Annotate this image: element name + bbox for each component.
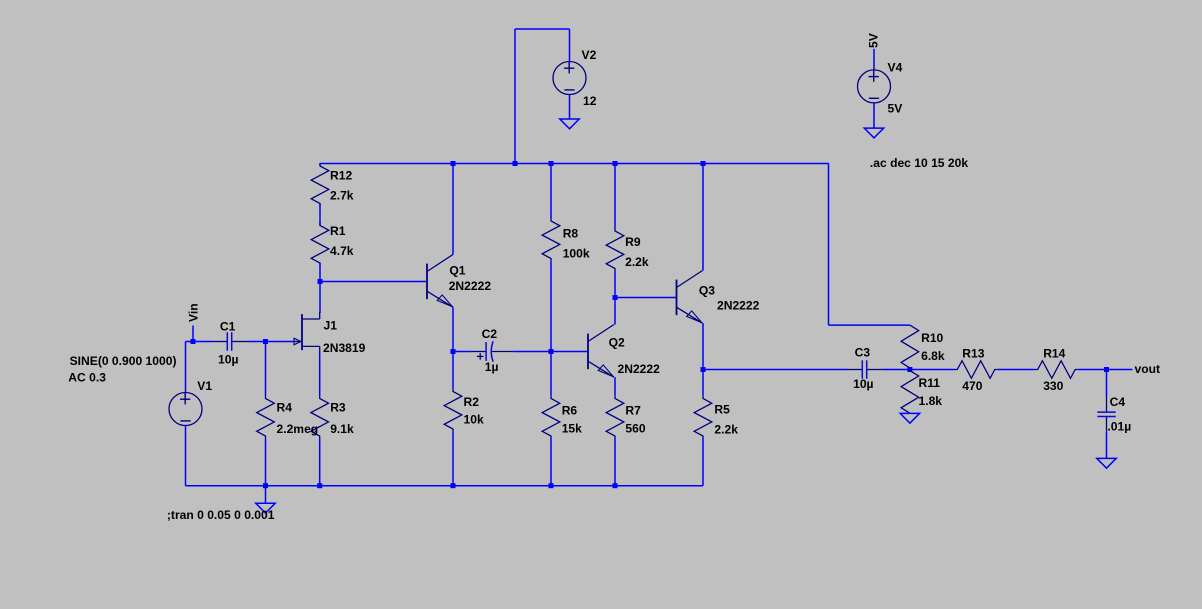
wire Q2 base [551,351,588,353]
voltage source V2 [553,62,586,95]
resistor R5 [694,396,712,440]
junction C1/R4/gate node [263,339,268,344]
junction R9/Q2/Q3 base [613,295,618,300]
wire R14 to vout [1078,369,1132,371]
svg-text:10µ: 10µ [218,353,238,367]
junction vout node [1104,367,1109,372]
svg-text:SINE(0 0.900 1000): SINE(0 0.900 1000) [70,354,177,368]
resistor R11 [901,370,919,414]
svg-text:560: 560 [625,422,645,436]
svg-text:R13: R13 [962,346,984,360]
wire C4 bottom [1106,432,1108,459]
wire J1 gate [266,341,294,343]
resistor R4 [257,396,275,440]
wire Q1 base [320,281,427,283]
wire C2 right [513,351,551,353]
wire R2 bottom [452,432,454,486]
svg-text:6.8k: 6.8k [921,349,945,363]
svg-text:vout: vout [1135,362,1161,376]
svg-text:470: 470 [962,379,982,393]
wire C3 to R10 node [882,369,910,371]
svg-text:AC 0.3: AC 0.3 [68,371,106,385]
voltage source V1 [169,393,202,426]
wire top supply bus [320,163,829,165]
wire R9 top [614,164,616,229]
svg-text:100k: 100k [563,246,590,260]
svg-text:R12: R12 [330,169,352,183]
resistor R14 [1035,361,1079,379]
svg-text:2N2222: 2N2222 [449,279,492,293]
junction top R8 [549,161,554,166]
wire Q3 emitter to C3 [703,369,847,371]
wire stub to ground flag [265,486,267,504]
svg-text:Vin: Vin [187,303,201,322]
junction top V2 [513,161,518,166]
ground below V2 [560,119,579,129]
resistor R1 [311,223,329,267]
wire V1 top [185,342,187,393]
npn transistor Q1 [426,264,428,300]
junction bottom R4 [263,483,268,488]
junction bottom R2 [451,483,456,488]
svg-text:330: 330 [1043,379,1063,393]
voltage source V2 branch wire [514,29,516,164]
wire R3 bottom [319,439,321,486]
wire R4 bottom [265,439,267,486]
n-JFET J1 [301,314,303,350]
wire Q1 emitter down [452,307,454,351]
svg-text:9.1k: 9.1k [330,422,354,436]
svg-text:Q1: Q1 [449,263,465,277]
wire Q2 collector up [614,298,616,325]
svg-text:R14: R14 [1043,346,1065,360]
svg-text:C1: C1 [220,320,236,334]
wire right bus down to R10 [828,164,830,326]
wire Q2 emitter down to R7 [614,377,616,395]
wire Vin stub [192,326,194,342]
svg-text:V2: V2 [582,48,597,62]
svg-text:12: 12 [583,94,597,108]
junction R10/R11/C3/R13 [907,367,912,372]
wire bottom ground bus [186,485,704,487]
svg-text:5V: 5V [867,33,881,48]
voltage source V4 top lead [873,49,875,70]
wire R13 to R14 [998,369,1035,371]
svg-text:1.8k: 1.8k [919,394,943,408]
svg-text:R11: R11 [919,376,941,390]
svg-text:2N2222: 2N2222 [618,362,661,376]
resistor R6 [542,396,560,440]
voltage source V4 [858,70,891,103]
ground below R11 [900,413,919,423]
npn transistor Q2 [587,334,589,370]
wire R4 top [265,342,267,396]
wire R9 bottom [614,272,616,298]
svg-text:C4: C4 [1110,395,1126,409]
wire R6 bottom [550,439,552,486]
svg-text:R6: R6 [562,404,578,418]
wire Q3 base [615,297,677,299]
resistor R9 [606,228,624,272]
wire Q3 collector up [702,164,704,271]
svg-text:10µ: 10µ [853,377,873,391]
svg-text:R2: R2 [464,395,480,409]
svg-text:15k: 15k [562,422,582,436]
junction Q1 emitter / C2 / R2 [451,349,456,354]
svg-text:R3: R3 [330,401,346,415]
junction top Q3 [701,161,706,166]
junction bottom R7 [613,483,618,488]
svg-text:R1: R1 [330,224,346,238]
svg-text:1µ: 1µ [485,360,499,374]
wire J1 source down to R3 [319,353,321,396]
svg-text:2.2k: 2.2k [714,423,738,437]
wire Q1 collector up [452,164,454,255]
capacitor C1 [212,341,227,343]
wire to R13 [910,369,955,371]
svg-text:2N2222: 2N2222 [717,299,760,313]
svg-text:2.2meg: 2.2meg [277,422,319,436]
wire R7 bottom [614,439,616,486]
svg-text:Q2: Q2 [609,336,625,350]
wire C4 top [1106,370,1108,397]
svg-text:R8: R8 [563,226,579,240]
resistor R10 [901,325,919,369]
wire R8 bottom [550,262,552,352]
wire R2 top [452,352,454,389]
svg-text:10k: 10k [464,413,484,427]
svg-text:C2: C2 [482,327,498,341]
wire Vin node to C1 [186,341,213,343]
polarized capacitor C2 [471,351,486,353]
junction top R9 [613,161,618,166]
resistor R2 [444,389,462,433]
wire V4 to ground [873,103,875,128]
svg-text:R7: R7 [625,404,641,418]
resistor R3 [311,396,329,440]
junction Q3 emitter / R5 / C3 [701,367,706,372]
svg-text:2.2k: 2.2k [625,255,649,269]
junction C2/R8/R6/Q2 [549,349,554,354]
svg-text:5V: 5V [888,102,903,116]
ground below C4 [1097,458,1116,468]
svg-text:R4: R4 [277,401,293,415]
svg-text:V4: V4 [888,61,903,75]
wire R5 top [702,370,704,396]
wire R8 top [550,164,552,219]
svg-text:2N3819: 2N3819 [323,341,366,355]
wire Q3 emitter down [702,323,704,369]
junction bottom R6 [549,483,554,488]
junction Vin node [191,339,196,344]
npn transistor Q3 [676,280,678,316]
svg-text:.ac dec 10 15 20k: .ac dec 10 15 20k [870,156,968,170]
svg-text:R9: R9 [625,235,641,249]
capacitor C4 [1106,397,1108,412]
svg-text:R10: R10 [921,331,943,345]
ground below V4 [864,128,883,138]
resistor R7 [606,396,624,440]
wire V1 bottom [185,426,187,486]
wire R6 top [550,352,552,396]
svg-text:;tran 0 0.05 0 0.001: ;tran 0 0.05 0 0.001 [167,508,275,522]
ground bottom [256,503,275,513]
junction R1/Q1 base [318,279,323,284]
wire R5 bottom [702,439,704,486]
wire C1 to R4 node [247,341,266,343]
resistor R12 [311,163,329,207]
capacitor C3 [847,369,862,371]
svg-text:J1: J1 [324,319,338,333]
svg-text:2.7k: 2.7k [330,189,354,203]
svg-text:C3: C3 [855,346,871,360]
wire R1 to J1 drain, node at base wire [319,263,321,313]
junction top Q1 [451,161,456,166]
svg-text:.01µ: .01µ [1107,419,1131,433]
svg-text:R5: R5 [714,402,730,416]
wire C2 left [453,351,471,353]
svg-text:Q3: Q3 [699,283,715,297]
svg-text:4.7k: 4.7k [330,244,354,258]
wire R12 to R1 [319,164,321,167]
wire V2 to ground [569,95,571,120]
junction bottom R3 [317,483,322,488]
resistor R13 [954,361,998,379]
resistor R8 [542,218,560,262]
svg-text:V1: V1 [197,379,212,393]
